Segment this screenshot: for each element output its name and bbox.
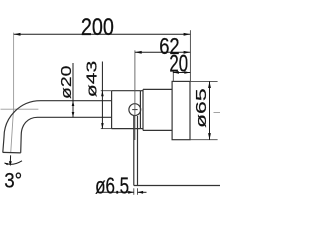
svg-text:ø20: ø20 xyxy=(57,66,74,99)
svg-text:200: 200 xyxy=(81,13,114,40)
svg-text:3°: 3° xyxy=(4,169,22,192)
svg-text:20: 20 xyxy=(169,51,188,77)
svg-text:ø6.5: ø6.5 xyxy=(95,174,129,199)
svg-text:ø43: ø43 xyxy=(82,61,99,98)
svg-text:ø65: ø65 xyxy=(193,88,210,128)
